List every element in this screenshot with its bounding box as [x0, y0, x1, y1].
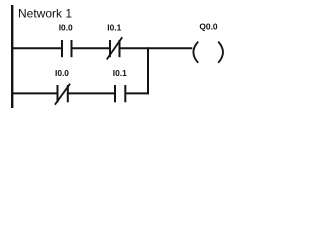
svg-text:I0.0: I0.0	[59, 23, 73, 33]
svg-text:Q0.0: Q0.0	[199, 21, 217, 31]
svg-text:I0.1: I0.1	[113, 68, 127, 78]
svg-text:Network 1: Network 1	[18, 7, 72, 21]
svg-text:I0.1: I0.1	[107, 23, 121, 33]
svg-text:I0.0: I0.0	[55, 68, 69, 78]
